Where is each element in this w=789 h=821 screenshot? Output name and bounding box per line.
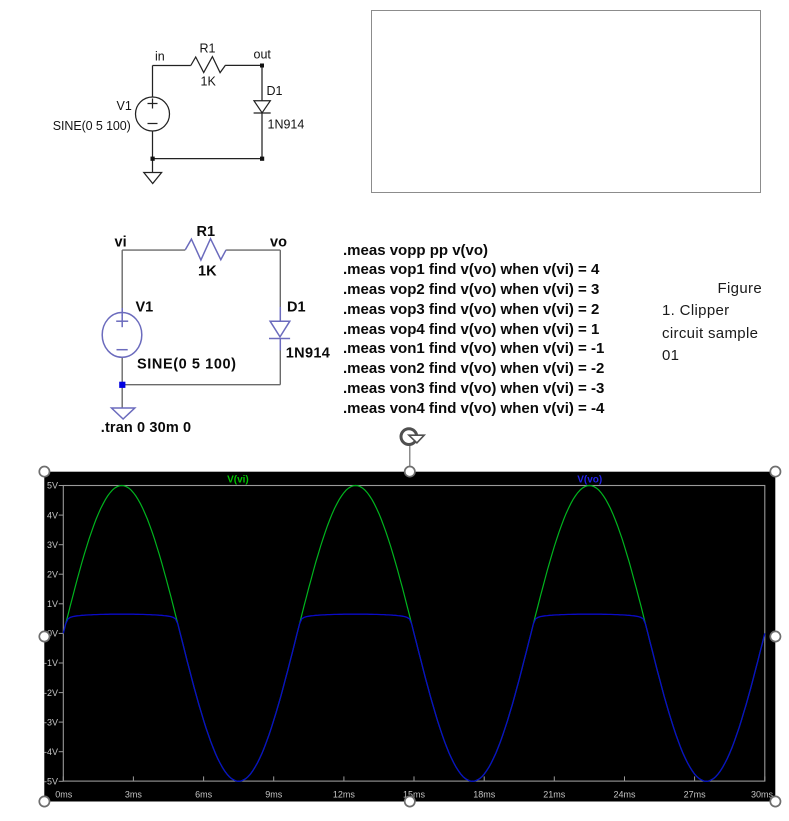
wire V1 to bottom [152, 131, 154, 159]
selection handle top-center [405, 467, 415, 477]
svg-text:-4V: -4V [44, 747, 58, 757]
svg-text:1N914: 1N914 [268, 118, 305, 132]
svg-text:4V: 4V [47, 510, 58, 520]
V1 source ellipse [102, 313, 142, 358]
wire junction to ground [121, 385, 123, 408]
svg-text:V1: V1 [136, 300, 154, 316]
selection handle mid-right [770, 631, 780, 641]
svg-text:1N914: 1N914 [286, 346, 330, 362]
svg-text:21ms: 21ms [543, 790, 566, 800]
svg-text:5V: 5V [47, 481, 58, 491]
trace V(vi) green sine [63, 486, 765, 782]
svg-text:vi: vi [115, 235, 127, 251]
wire V1 bottom [121, 357, 123, 384]
wire out to diode [261, 65, 263, 100]
diode D1 leads [279, 307, 281, 321]
diode D1 triangle [270, 321, 290, 337]
rotate stem [409, 445, 411, 467]
minus sign [148, 123, 158, 125]
svg-text:2V: 2V [47, 569, 58, 579]
svg-text:-5V: -5V [44, 777, 58, 787]
bottom rail wire [122, 384, 280, 386]
selection handle top-right [770, 467, 780, 477]
ground symbol [112, 408, 135, 419]
bottom wire [153, 158, 263, 160]
ground symbol [144, 173, 162, 184]
wire top rail [122, 249, 185, 251]
svg-text:1K: 1K [198, 264, 217, 280]
selection handle bottom-right [770, 796, 780, 806]
svg-text:24ms: 24ms [613, 790, 636, 800]
svg-text:3ms: 3ms [125, 790, 143, 800]
svg-text:1K: 1K [201, 75, 217, 89]
svg-text:-1V: -1V [44, 658, 58, 668]
svg-text:-2V: -2V [44, 688, 58, 698]
wire left rail [121, 250, 123, 313]
voltage source V1 circle [136, 97, 170, 131]
node square bottom-left [151, 157, 155, 161]
svg-text:vo: vo [270, 235, 287, 251]
svg-text:in: in [155, 50, 165, 64]
selection handle top-left [39, 467, 49, 477]
rotate handle icon [401, 429, 417, 445]
svg-text:18ms: 18ms [473, 790, 496, 800]
svg-text:1V: 1V [47, 599, 58, 609]
wire top right segment [226, 64, 262, 66]
svg-text:V(vi): V(vi) [227, 475, 249, 486]
svg-text:9ms: 9ms [265, 790, 283, 800]
wire right rail [279, 250, 281, 307]
plus sign [152, 99, 154, 109]
selection handle bottom-center [405, 796, 415, 806]
svg-text:12ms: 12ms [333, 790, 356, 800]
wire top left segment [153, 65, 191, 67]
svg-text:R1: R1 [200, 42, 216, 56]
svg-text:V(vo): V(vo) [577, 475, 602, 486]
node square bottom-right [260, 157, 264, 161]
selection handle mid-left [39, 631, 49, 641]
svg-text:30ms: 30ms [751, 790, 774, 800]
svg-text:.tran 0 30m 0: .tran 0 30m 0 [101, 420, 191, 436]
plus sign [121, 315, 123, 327]
svg-text:out: out [254, 48, 272, 62]
minus sign [117, 349, 128, 351]
svg-text:SINE(0 5 100): SINE(0 5 100) [137, 357, 236, 373]
figure caption [662, 278, 789, 367]
svg-text:V1: V1 [117, 99, 132, 113]
svg-text:6ms: 6ms [195, 790, 213, 800]
ground stem [152, 159, 154, 173]
svg-text:-3V: -3V [44, 717, 58, 727]
.meas directives text block [343, 241, 604, 419]
wire in-node vertical [152, 66, 154, 98]
diode D1 [254, 101, 270, 113]
empty placeholder rectangle top-right [371, 10, 761, 193]
svg-text:3V: 3V [47, 540, 58, 550]
resistor R1 zigzag [185, 239, 226, 260]
junction square blue [119, 382, 125, 388]
trace V(vo) blue clipped [63, 614, 765, 781]
svg-text:D1: D1 [267, 84, 283, 98]
plot pane border [63, 486, 765, 782]
wire diode to bottom [261, 113, 263, 159]
svg-text:0ms: 0ms [55, 790, 73, 800]
black plot background [44, 472, 775, 802]
svg-text:27ms: 27ms [684, 790, 707, 800]
V1 top lead [121, 308, 123, 316]
selection handle bottom-left [39, 796, 49, 806]
node square out [260, 64, 264, 68]
wire diode to bottom rail [279, 350, 281, 385]
resistor R1 [191, 57, 226, 73]
svg-text:SINE(0 5 100): SINE(0 5 100) [53, 119, 131, 133]
svg-text:R1: R1 [197, 224, 216, 240]
svg-text:D1: D1 [287, 300, 306, 316]
